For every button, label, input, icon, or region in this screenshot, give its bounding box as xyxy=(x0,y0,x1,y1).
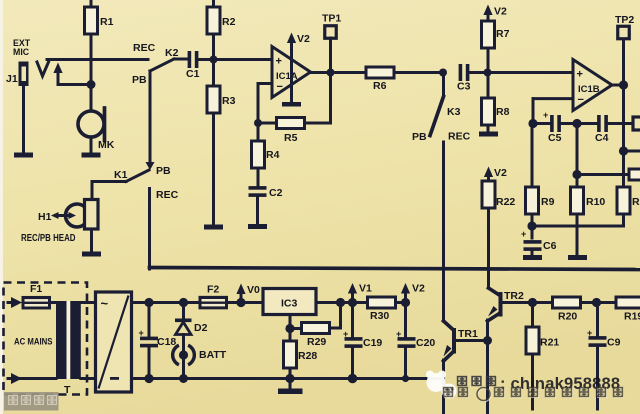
node TR2 base / rail xyxy=(528,298,537,307)
wire branch to edge resistor xyxy=(577,173,629,176)
svg-text:REC/PB HEAD: REC/PB HEAD xyxy=(21,233,76,244)
microphone MK xyxy=(78,111,104,137)
resistor R29 xyxy=(290,327,302,330)
svg-text:+: + xyxy=(543,110,548,120)
ground (R10) xyxy=(568,255,587,260)
resistor R9 xyxy=(531,124,534,188)
V1 supply xyxy=(348,283,357,294)
fuse F1 xyxy=(22,296,52,310)
svg-text:C20: C20 xyxy=(416,337,435,349)
svg-text:IC3: IC3 xyxy=(281,298,298,310)
switch K1 xyxy=(126,170,149,182)
battery BATT xyxy=(173,345,179,365)
head H1 xyxy=(65,204,84,227)
resistor R19 (cropped) xyxy=(597,301,617,304)
V2 supply R7 xyxy=(483,5,492,16)
ground (J1) xyxy=(14,153,33,158)
svg-text:C19: C19 xyxy=(363,337,382,349)
test point TP1 xyxy=(325,26,337,39)
svg-text:T: T xyxy=(64,384,71,396)
resistor R1 xyxy=(90,0,93,8)
watermark line 2 xyxy=(444,388,624,402)
arrow into mic node xyxy=(53,63,62,74)
feedback wire IC1B xyxy=(533,97,573,100)
svg-text:R8: R8 xyxy=(496,106,510,118)
svg-text:R3: R3 xyxy=(222,95,236,107)
wire output IC1B xyxy=(612,84,624,87)
svg-text:R6: R6 xyxy=(373,80,387,92)
svg-text:D2: D2 xyxy=(194,322,208,334)
svg-text:R7: R7 xyxy=(496,28,510,40)
svg-text:AC MAINS: AC MAINS xyxy=(14,337,53,347)
V2 supply xyxy=(401,298,410,307)
op-amp IC1B xyxy=(573,60,612,111)
svg-text:C6: C6 xyxy=(543,240,557,252)
svg-text:+: + xyxy=(396,329,401,339)
resistor R8 xyxy=(487,73,490,99)
node TR1 base xyxy=(483,336,492,345)
svg-text:R4: R4 xyxy=(266,149,280,161)
wire to IC1A + xyxy=(214,58,273,61)
svg-text:+: + xyxy=(139,328,144,338)
svg-text:C18: C18 xyxy=(157,336,176,348)
wire to IC1B + xyxy=(488,71,574,74)
svg-text:C4: C4 xyxy=(595,132,609,144)
capacitor C6 xyxy=(531,226,534,238)
node R9 bottom xyxy=(527,221,536,230)
svg-text:R22: R22 xyxy=(496,196,515,208)
svg-text:IC1B: IC1B xyxy=(578,84,600,95)
svg-text:+: + xyxy=(577,69,583,81)
bridge rectifier xyxy=(81,301,96,304)
svg-text:K2: K2 xyxy=(165,47,179,59)
svg-text:R20: R20 xyxy=(558,311,577,323)
ground (C2) xyxy=(248,224,267,229)
svg-text:~: ~ xyxy=(101,296,109,311)
svg-text:+: + xyxy=(521,229,526,239)
resistor R28 xyxy=(289,329,292,342)
svg-text:TP1: TP1 xyxy=(322,13,341,25)
switch K3 xyxy=(442,73,445,97)
svg-text:C5: C5 xyxy=(548,132,562,144)
svg-text:R10: R10 xyxy=(586,196,605,208)
svg-text:BATT: BATT xyxy=(199,349,227,361)
wire xyxy=(58,83,91,86)
svg-text:−: − xyxy=(578,94,584,106)
svg-text:V0: V0 xyxy=(247,284,260,296)
jack switch contact V xyxy=(37,62,49,76)
resistor R11 xyxy=(617,187,630,214)
resistor R12 (cropped) xyxy=(629,169,640,180)
resistor R10 xyxy=(576,124,579,175)
transformer T xyxy=(56,301,67,379)
arrow H1 xyxy=(56,214,71,217)
resistor R2 xyxy=(212,0,215,8)
svg-text:K1: K1 xyxy=(114,169,128,181)
ground (H1) xyxy=(82,252,101,257)
capacitor C9 xyxy=(596,303,599,337)
svg-text:TR2: TR2 xyxy=(504,290,524,302)
capacitor C1 xyxy=(188,51,199,68)
svg-text:C1: C1 xyxy=(186,68,200,80)
watermark line 1 xyxy=(458,375,621,393)
svg-text:V2: V2 xyxy=(494,6,507,18)
svg-text:REC: REC xyxy=(448,131,471,143)
IC3 ground pin / node R28 xyxy=(289,315,292,329)
resistor R20 xyxy=(533,301,553,304)
svg-text:R9: R9 xyxy=(541,196,555,208)
svg-text:REC: REC xyxy=(133,42,156,54)
DC rail top xyxy=(132,301,200,304)
resistor R7 xyxy=(482,21,495,48)
watermark white figure xyxy=(426,371,457,399)
svg-text:R1: R1 xyxy=(100,16,114,28)
ground (C6) xyxy=(523,255,542,260)
resistor R3 xyxy=(212,60,215,87)
ground (MK) xyxy=(82,153,101,158)
bus wire (REC line) xyxy=(150,268,640,270)
node R7/R8 xyxy=(484,69,492,77)
svg-text:V2: V2 xyxy=(297,33,310,45)
svg-text:K3: K3 xyxy=(447,106,461,118)
switch K2 xyxy=(150,59,174,71)
node C1/R2 xyxy=(210,56,218,64)
svg-text:TR1: TR1 xyxy=(458,328,478,340)
ground (R3) xyxy=(204,225,223,230)
input arrow bottom xyxy=(8,377,13,380)
ground (R28) xyxy=(285,374,294,383)
capacitor C3 xyxy=(459,64,470,81)
svg-text:MK: MK xyxy=(98,139,115,151)
regulator IC3 xyxy=(263,289,316,315)
svg-text:−: − xyxy=(277,81,283,93)
fuse F2 xyxy=(199,296,229,310)
connector at right edge xyxy=(633,117,640,130)
node mic junction xyxy=(87,80,96,89)
transistor TR2 xyxy=(489,288,501,296)
node K3 xyxy=(439,69,447,77)
feedback wire IC1A xyxy=(258,82,272,85)
resistor R30 xyxy=(368,297,396,308)
capacitor C5 xyxy=(533,122,550,125)
resistor R6 xyxy=(331,71,367,74)
svg-text:R2: R2 xyxy=(222,16,236,28)
watermark bottom-left box xyxy=(4,392,59,411)
svg-text:R21: R21 xyxy=(540,337,559,349)
svg-text:REC: REC xyxy=(156,189,179,201)
resistor R22 xyxy=(482,181,495,208)
svg-text:H1: H1 xyxy=(38,211,52,223)
svg-text:C2: C2 xyxy=(269,187,283,199)
resistor R21 xyxy=(531,303,534,328)
svg-text:R5: R5 xyxy=(284,132,298,144)
svg-text:IC1A: IC1A xyxy=(276,71,298,82)
input arrow top xyxy=(8,301,13,304)
svg-text:V2: V2 xyxy=(494,167,507,179)
resistor R4 xyxy=(257,123,260,141)
svg-text:F2: F2 xyxy=(207,284,219,296)
svg-text:R28: R28 xyxy=(298,350,317,362)
svg-text:PB: PB xyxy=(412,131,427,143)
capacitor C2 xyxy=(249,186,267,197)
svg-text:R30: R30 xyxy=(370,310,389,322)
diode D2 xyxy=(182,303,185,320)
op-amp IC1A xyxy=(272,47,311,98)
wire K1-REC down to bus xyxy=(148,189,151,270)
svg-text:V2: V2 xyxy=(412,283,425,295)
svg-text:R29: R29 xyxy=(307,336,326,348)
wire R9-R11 bottom xyxy=(532,225,623,228)
svg-text:+: + xyxy=(276,56,282,68)
jack J1 xyxy=(19,62,29,87)
svg-text:MIC: MIC xyxy=(13,47,30,57)
wire K3 REC down to TR1 xyxy=(442,142,445,321)
svg-text:PB: PB xyxy=(132,74,147,86)
svg-text:V1: V1 xyxy=(359,283,372,295)
dashed box AC MAINS xyxy=(4,283,88,395)
capacitor C20 xyxy=(404,303,407,338)
svg-text:+: + xyxy=(587,328,592,338)
ground (R8) xyxy=(479,132,498,137)
svg-text:C3: C3 xyxy=(457,81,471,93)
wire PB down to K1 xyxy=(149,71,152,164)
capacitor C19 xyxy=(351,303,354,338)
transistor TR1 xyxy=(444,321,454,330)
svg-text:PB: PB xyxy=(156,165,171,177)
left white edge strip xyxy=(0,0,3,414)
svg-text:TP2: TP2 xyxy=(615,14,634,26)
svg-text:+: + xyxy=(343,329,348,339)
wire REC from jack switch xyxy=(47,58,148,61)
svg-text:R11: R11 xyxy=(632,196,640,208)
svg-text:R19: R19 xyxy=(624,311,640,323)
capacitor C4 xyxy=(577,122,597,125)
svg-text:F1: F1 xyxy=(30,283,42,295)
capacitor C18 xyxy=(148,303,151,337)
node R20/R19/C9 xyxy=(592,298,601,307)
wire output IC1A xyxy=(311,71,331,74)
node V0 xyxy=(236,298,245,307)
wire to edge xyxy=(624,150,640,153)
power pin V2 (IC1A) xyxy=(287,33,296,44)
resistor R5 xyxy=(258,122,277,125)
V2 supply R22 xyxy=(484,167,493,178)
svg-text:C9: C9 xyxy=(607,337,621,349)
ground rail bottom xyxy=(132,377,444,380)
node IC1B output branch xyxy=(619,146,628,155)
svg-text:J1: J1 xyxy=(6,73,18,85)
test point TP2 xyxy=(618,26,630,39)
